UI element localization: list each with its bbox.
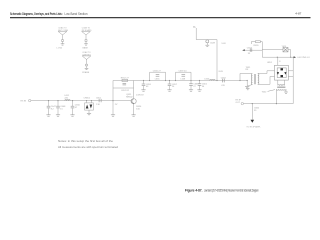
capacitor C655 shunt [142, 80, 152, 90]
svg-text:8.6V: 8.6V [219, 71, 224, 73]
capacitor C650 shunt [71, 100, 81, 115]
diode limiter CR651 [84, 97, 94, 113]
svg-text:9.6V: 9.6V [222, 43, 227, 45]
wire: input rail [31, 100, 131, 102]
svg-text:C662: C662 [221, 78, 227, 80]
crystal filter Y651 [262, 46, 290, 57]
feedback loop R652/C652 [113, 78, 134, 101]
connector symbol S1 (antenna/coax legend left) [57, 27, 69, 50]
svg-text:M9642: M9642 [126, 97, 133, 99]
capacitor C657 shunt [168, 80, 178, 90]
svg-text:Low Band Section: Low Band Section [65, 12, 88, 16]
capacitor C666 drop with off-page arrow [246, 103, 261, 129]
wire: T651 secondary to mixer [258, 71, 275, 85]
wire: LO vertical feed [292, 57, 294, 103]
mixer U651 [267, 57, 288, 80]
node: base junction [112, 100, 113, 101]
ground [70, 115, 74, 116]
wire: LO bus vertical [261, 42, 263, 58]
filter loop 1 L655/C656 [149, 70, 166, 81]
svg-text:Figure 4-87.: Figure 4-87. [185, 188, 203, 192]
RX input terminal J651 [21, 99, 31, 102]
ground (T651 primary) [246, 88, 250, 89]
ground (T652 secondary) [284, 92, 288, 93]
ground [197, 90, 201, 91]
transformer T652 [262, 80, 287, 104]
feedthrough capacitor C649 [205, 40, 226, 47]
connector symbol S2 (legend right) [82, 27, 93, 50]
wire: step up to T651 [239, 74, 251, 82]
ground [87, 113, 91, 114]
header title [10, 12, 88, 16]
svg-text:RX IN: RX IN [21, 101, 27, 103]
svg-text:BASE: BASE [83, 47, 89, 50]
capacitor C660 shunt [189, 81, 199, 90]
svg-text:All measurements are with spec: All measurements are with spectrum termi… [58, 146, 119, 149]
capacitor C648 shunt [56, 100, 66, 115]
off-page arrow 2nd LO [294, 56, 311, 59]
ground [46, 115, 50, 116]
svg-text:C656 27: C656 27 [153, 70, 162, 72]
svg-text:0.4V 2ND LO: 0.4V 2ND LO [297, 57, 310, 59]
figure caption [185, 188, 259, 192]
svg-text:Schematic Diagrams, Overlays,: Schematic Diagrams, Overlays, and Parts … [10, 12, 63, 16]
capacitor C662 series [221, 78, 227, 87]
connector symbol S3 (legend lower) [82, 51, 91, 74]
ground [245, 86, 249, 87]
capacitor C653 series with off-page arrow [242, 48, 262, 55]
svg-text:L1700: L1700 [57, 48, 63, 50]
ground [189, 90, 193, 91]
ground (emitter) [132, 115, 136, 116]
capacitor C651 series [96, 97, 102, 106]
svg-text:4-87: 4-87 [295, 12, 301, 16]
transformer T651 [246, 67, 259, 86]
svg-text:TO RX IF AMPL: TO RX IF AMPL [246, 126, 261, 129]
supply feed A+ [193, 25, 217, 39]
capacitor C647 shunt [47, 100, 57, 115]
header rule [10, 17, 311, 19]
notes text [58, 140, 119, 149]
svg-text:CR651: CR651 [84, 97, 91, 99]
capacitor C661 shunt [198, 80, 208, 90]
svg-text:1.8/8.5V: 1.8/8.5V [136, 95, 144, 97]
svg-text:C649: C649 [210, 43, 216, 45]
filter loop 2 L658/C659 [175, 70, 192, 81]
svg-text:FRAME: FRAME [82, 71, 90, 74]
inductor L661 shunt to ground [247, 80, 248, 86]
svg-text:T652: T652 [262, 91, 268, 93]
ground [167, 90, 171, 91]
ground [56, 115, 60, 116]
wire: LO line to mixer [262, 57, 293, 58]
RX IF output line [236, 100, 294, 105]
svg-text:C659 24: C659 24 [179, 70, 188, 72]
wire: collector rail [113, 80, 247, 82]
wire: supply drop to rail [216, 40, 223, 82]
svg-text:Low Band (29.7-42/35-50 MHz) R: Low Band (29.7-42/35-50 MHz) Receiver Fr… [204, 188, 259, 192]
resistor R653 shunt to ground [113, 101, 118, 115]
inductor L660 series [205, 79, 216, 81]
wire: mixer right pins to LO feed [288, 71, 293, 77]
LO injection network: resistor R655 [251, 41, 262, 47]
ground [141, 90, 145, 91]
svg-text:Notes: in this setup the first: Notes: in this setup the first few all o… [58, 140, 114, 143]
inductor L651 series [65, 95, 71, 100]
svg-text:OUT: OUT [236, 102, 241, 104]
svg-text:U651: U651 [267, 62, 273, 64]
svg-text:C652 82: C652 82 [121, 90, 130, 92]
svg-text:R655: R655 [254, 45, 260, 47]
transistor Q1 (Q651) [126, 94, 144, 115]
ground [111, 115, 115, 116]
